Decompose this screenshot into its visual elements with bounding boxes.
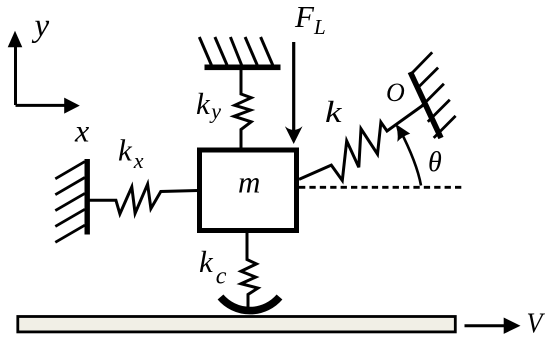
- velocity arrow V: [465, 318, 521, 334]
- dashed reference line: [299, 186, 465, 189]
- y-axis arrow: [8, 31, 23, 105]
- spring k_y: [234, 70, 251, 150]
- belt ground bar: [18, 317, 456, 332]
- fixed support top: bar: [199, 37, 280, 70]
- hatch lines top support: [199, 37, 211, 65]
- angle arc theta: [395, 123, 421, 185]
- svg-text:y: y: [32, 8, 50, 44]
- force arrow F_L: [285, 42, 303, 144]
- svg-text:m: m: [238, 165, 260, 200]
- hatch lines right support: [412, 52, 433, 73]
- fixed wall left: bar: [55, 159, 90, 242]
- x-axis arrow: [16, 98, 80, 114]
- fixed support right (inclined): bar: [410, 52, 455, 138]
- svg-text:θ: θ: [428, 147, 442, 178]
- contact shoe arc: [221, 297, 280, 311]
- mass m block: [200, 150, 297, 231]
- hatch lines left wall: [55, 162, 85, 179]
- svg-text:O: O: [386, 78, 405, 107]
- spring k (inclined): [299, 105, 424, 181]
- spring k_x: [89, 184, 198, 214]
- svg-text:k: k: [325, 94, 343, 129]
- spring k_c: [241, 233, 258, 310]
- svg-text:x: x: [74, 113, 89, 149]
